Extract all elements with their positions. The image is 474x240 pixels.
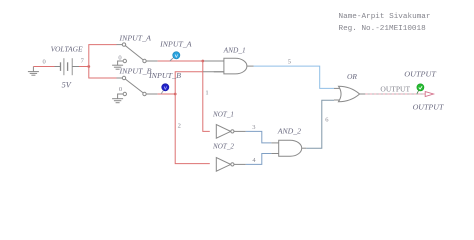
ground at switch A (112, 61, 123, 69)
svg-text:INPUT_B: INPUT_B (148, 72, 182, 80)
ground GND main (28, 67, 39, 76)
junction node 2 (174, 93, 177, 96)
svg-text:0: 0 (42, 58, 45, 65)
svg-text:NOT_2: NOT_2 (212, 142, 234, 150)
wire battery to junction (79, 66, 89, 68)
wire net1 down to NOT_1 (203, 61, 210, 131)
svg-text:Reg. No.-21MEI10018: Reg. No.-21MEI10018 (339, 25, 427, 33)
wire net4 NOT_2 to AND_2 (246, 154, 271, 165)
svg-text:INPUT_B: INPUT_B (118, 67, 152, 75)
NOT gate NOT_1 (216, 125, 246, 139)
svg-text:5: 5 (288, 58, 291, 65)
probe INPUT_A (170, 52, 180, 61)
wire up to switch A (89, 45, 117, 67)
probe OUTPUT (green) (417, 84, 424, 94)
svg-text:Name-Arpit Sivakumar: Name-Arpit Sivakumar (339, 13, 431, 21)
wire net2 switch B to junction (146, 93, 157, 95)
switch INPUT_A (122, 43, 146, 63)
svg-text:VOLTAGE: VOLTAGE (51, 46, 84, 54)
switch INPUT_B (122, 76, 146, 95)
NOT gate NOT_2 (216, 158, 246, 172)
svg-text:OUTPUT: OUTPUT (380, 86, 410, 94)
svg-text:0: 0 (118, 54, 121, 61)
wire net3 NOT_1 to AND_2 (246, 131, 271, 143)
svg-text:0: 0 (119, 86, 122, 93)
wire net6 AND_2 to OR (306, 100, 334, 148)
connector arrow OUTPUT (425, 92, 433, 97)
AND gate AND_2 (279, 140, 307, 156)
svg-text:INPUT_A: INPUT_A (118, 34, 151, 42)
ground at switch B (112, 94, 123, 103)
svg-text:2: 2 (178, 122, 181, 129)
svg-text:AND_1: AND_1 (223, 46, 246, 54)
svg-text:OR: OR (347, 73, 358, 81)
svg-text:OUTPUT: OUTPUT (413, 104, 445, 112)
wire net2 down to NOT_2 (175, 94, 210, 164)
junction node 1 (201, 60, 204, 63)
svg-text:OUTPUT: OUTPUT (404, 71, 437, 79)
svg-text:INPUT_A: INPUT_A (159, 40, 192, 48)
wire net OUTPUT (dashed pink over gray) (365, 93, 425, 95)
svg-text:AND_2: AND_2 (277, 128, 302, 136)
OR gate OR1 (334, 86, 365, 102)
battery V1 VOLTAGE (55, 58, 80, 75)
AND gate AND_1 (214, 58, 254, 74)
wire net5 AND_1 to OR (254, 66, 335, 88)
probe INPUT_B (161, 84, 169, 94)
wire net1 switch A to AND_1 (146, 60, 157, 62)
svg-text:NOT_1: NOT_1 (212, 110, 234, 118)
wire down to switch B (89, 67, 117, 79)
svg-text:3: 3 (252, 124, 255, 131)
svg-text:1: 1 (205, 89, 208, 96)
junction battery node (87, 65, 90, 68)
svg-text:5V: 5V (62, 81, 72, 90)
wire net2 up to AND_1 input B (175, 72, 203, 94)
wire net0 ground to battery (33, 66, 54, 68)
